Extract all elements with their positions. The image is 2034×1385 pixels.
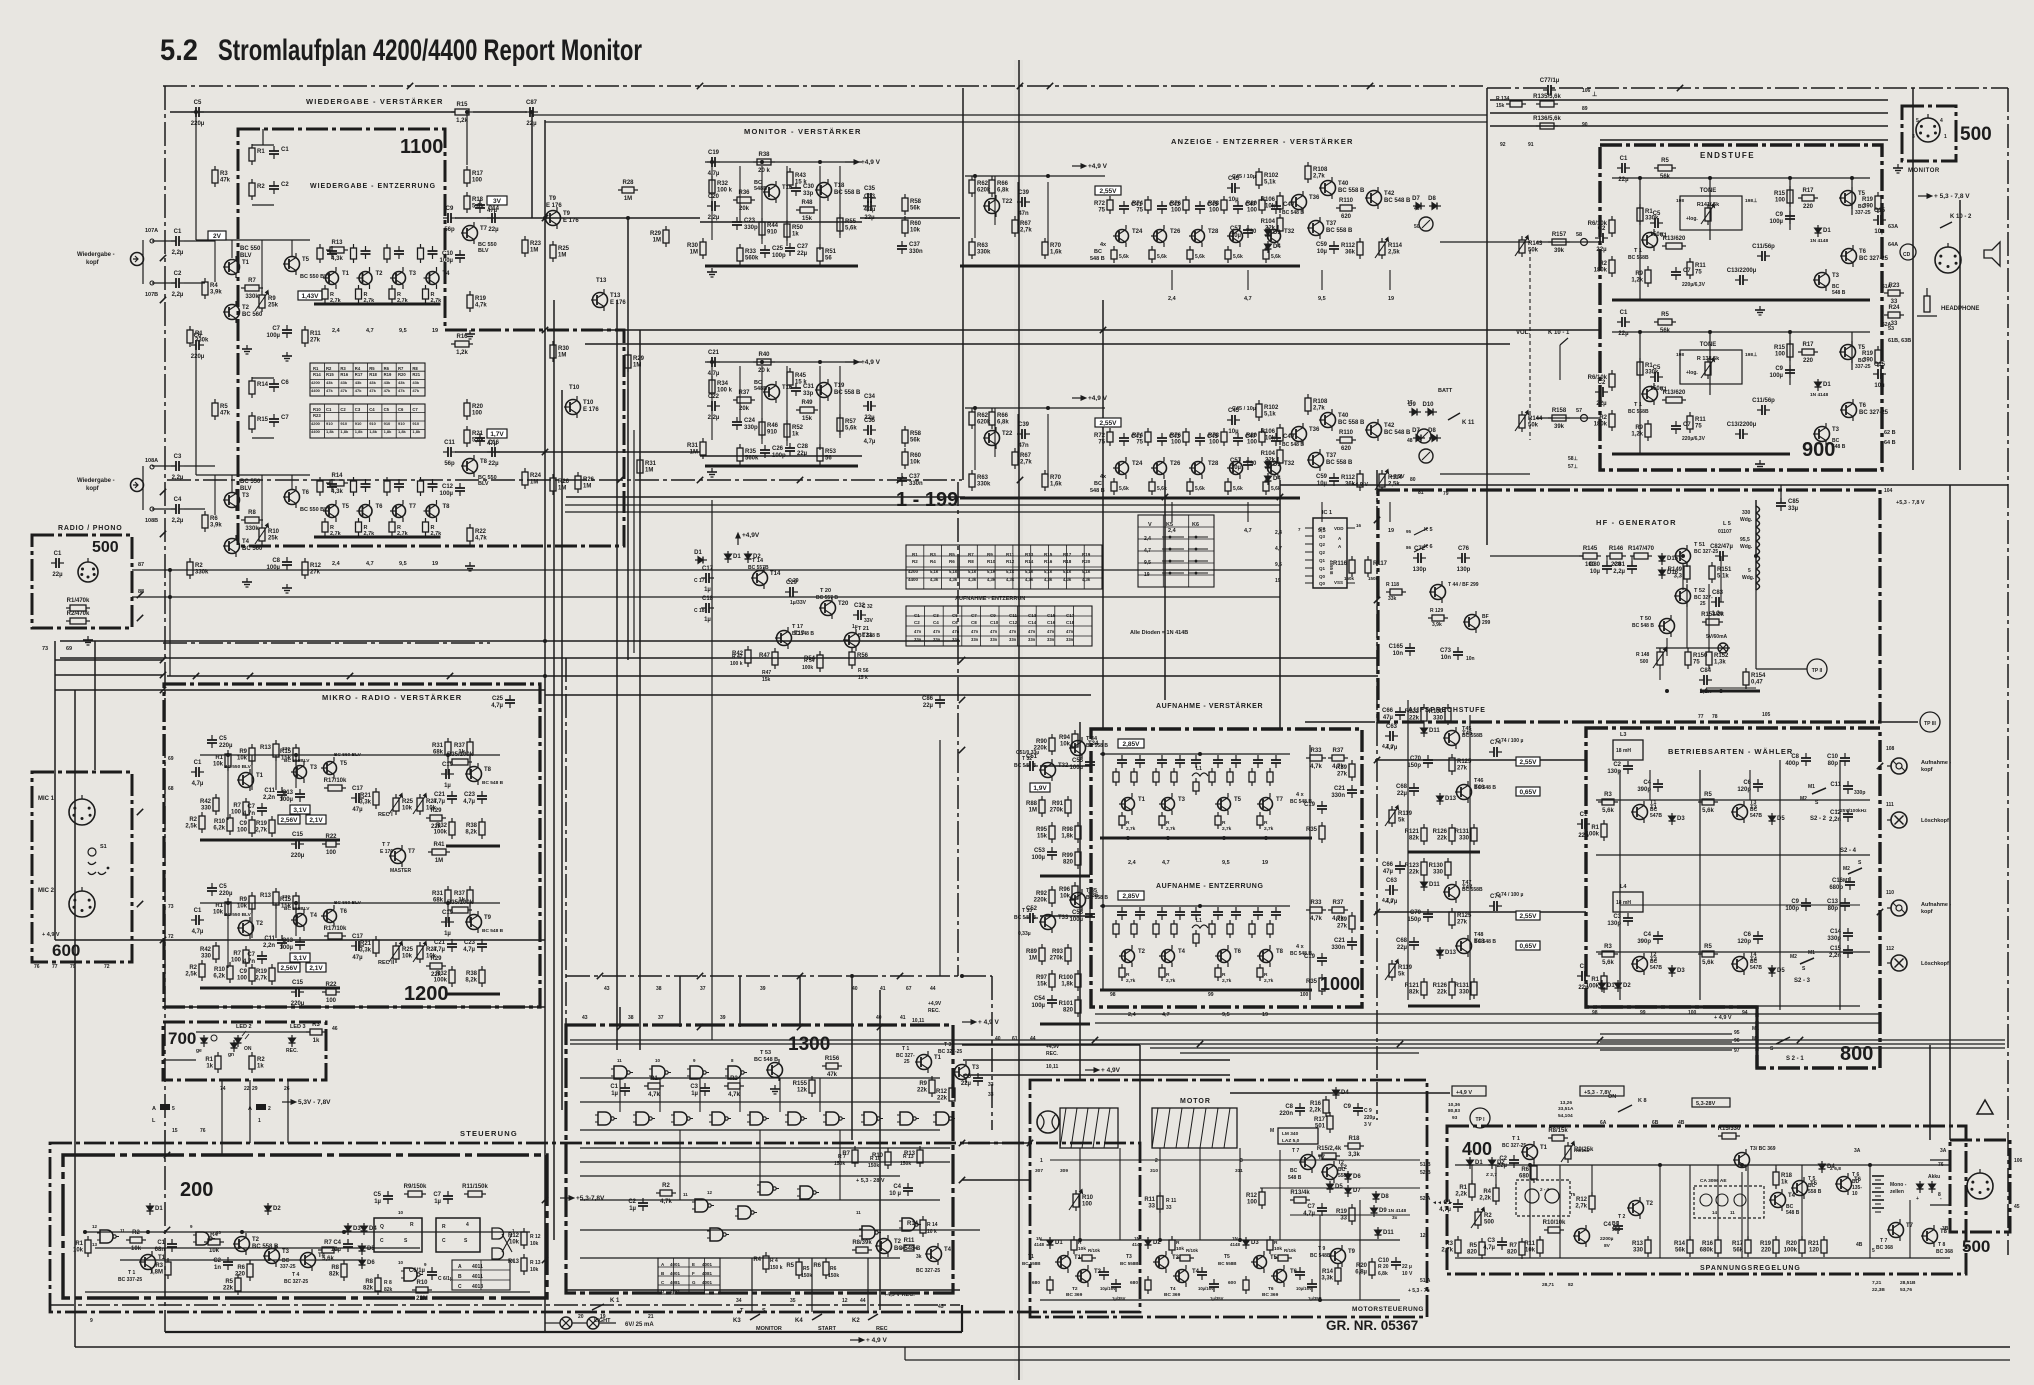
capacitor C2 (1607, 761, 1633, 775)
capacitor C13 (1231, 755, 1241, 768)
pin tick (959, 697, 965, 703)
svg-text:19: 19 (1144, 572, 1150, 578)
svg-text:10k: 10k (131, 1246, 142, 1252)
svg-text:2,7k: 2,7k (1166, 826, 1176, 832)
vertical x852 (851, 976, 853, 1140)
svg-text:15: 15 (172, 1128, 178, 1134)
capacitor C84 (1699, 668, 1712, 695)
transistor T4 (291, 909, 318, 931)
svg-text:1: 1 (258, 1118, 261, 1124)
svg-text:R15: R15 (326, 372, 334, 377)
svg-text:309: 309 (1060, 1168, 1068, 1174)
svg-text:27k: 27k (310, 570, 321, 576)
capacitor C47 (1233, 201, 1257, 214)
pin tick (1367, 83, 1373, 89)
svg-text:560k: 560k (745, 456, 759, 462)
outer frame right (2007, 88, 2009, 1255)
svg-text:R: R (1166, 820, 1170, 826)
svg-text:R1: R1 (1591, 825, 1599, 831)
svg-text:R11: R11 (310, 331, 321, 337)
svg-text:33: 33 (988, 1082, 994, 1088)
capacitor C3 (1135, 755, 1145, 768)
keys K3 K4 K2 (733, 1308, 888, 1332)
resistor R14 (907, 1216, 926, 1237)
resistor R67 (1012, 216, 1032, 237)
wire (262, 129, 264, 145)
svg-text:9,5: 9,5 (1222, 1012, 1230, 1018)
svg-text:330k: 330k (245, 294, 259, 300)
resistor R16 (451, 334, 473, 356)
wire vol upper (1536, 241, 1600, 243)
svg-text:4,3k: 4,3k (1025, 577, 1034, 582)
capacitor C70 (1407, 909, 1433, 923)
tp3 line (1880, 721, 1918, 723)
svg-text:Q3: Q3 (1319, 534, 1326, 539)
svg-text:D13: D13 (1445, 950, 1457, 956)
capacitor C8 (1785, 753, 1811, 767)
svg-text:+4,9V: +4,9V (1046, 1044, 1060, 1050)
svg-text:BC 548 B: BC 548 B (482, 780, 504, 786)
svg-text:Q1: Q1 (1319, 558, 1326, 563)
svg-text:3 V: 3 V (1364, 1122, 1372, 1128)
LED1 (196, 1035, 217, 1054)
capacitor C4 (331, 1239, 353, 1253)
svg-text:4,7µ: 4,7µ (864, 439, 876, 445)
resistor R14 (326, 473, 348, 495)
svg-text:R6: R6 (813, 1263, 821, 1269)
svg-text:57⊥: 57⊥ (1568, 464, 1579, 470)
svg-text:19: 19 (1388, 528, 1394, 534)
resistor R5 (1467, 1238, 1485, 1259)
svg-text:1,7V: 1,7V (490, 431, 504, 438)
svg-text:390: 390 (1863, 358, 1874, 364)
svg-text:C57: C57 (1230, 458, 1242, 464)
svg-text:22µ: 22µ (526, 121, 537, 127)
resistor R21 (359, 788, 379, 809)
svg-text:R5: R5 (803, 1266, 810, 1272)
svg-text:BC 560 BLV: BC 560 BLV (334, 900, 362, 906)
potentiometer R2 (1471, 1208, 1495, 1230)
svg-text:10: 10 (398, 1210, 404, 1215)
svg-text:1µ: 1µ (444, 931, 451, 937)
svg-text:47k: 47k (384, 388, 391, 393)
resistor R3 (150, 1258, 171, 1279)
svg-text:R1: R1 (75, 1241, 83, 1247)
resistor R66 (989, 408, 1009, 429)
capacitor stage2 (1209, 1279, 1219, 1292)
svg-text:LAZ 5,0: LAZ 5,0 (1282, 1138, 1300, 1144)
svg-text:33: 33 (1166, 1205, 1172, 1211)
svg-text:C5: C5 (219, 884, 227, 890)
diode D4 (1265, 473, 1282, 485)
svg-text:51 B: 51 B (1420, 1162, 1431, 1168)
svg-text:2,4: 2,4 (1168, 296, 1177, 302)
capacitor C8 (1279, 1103, 1305, 1117)
capacitor C25 (760, 245, 786, 259)
svg-text:R7: R7 (324, 1240, 332, 1246)
svg-text:BC 558 B: BC 558 B (834, 190, 861, 196)
resistor R35 (1306, 822, 1325, 843)
svg-text:3,3: 3,3 (1674, 574, 1683, 580)
capacitor C3 (1607, 913, 1633, 927)
svg-text:150 k: 150 k (770, 1265, 783, 1271)
resistor stage (1267, 1236, 1273, 1254)
svg-text:T3: T3 (310, 765, 318, 771)
resistor R108 (1305, 394, 1328, 415)
table V K5 K6 (1138, 515, 1214, 587)
monitor ground rail (705, 265, 858, 268)
gate 1300 (735, 1206, 757, 1219)
potentiometer R148 (1653, 648, 1667, 670)
capacitor C17 (351, 786, 364, 813)
svg-text:35: 35 (790, 1298, 796, 1304)
transistor T6 (1271, 1265, 1298, 1287)
svg-text:10k: 10k (1060, 894, 1071, 900)
svg-text:910: 910 (369, 421, 376, 426)
svg-text:C3: C3 (174, 454, 182, 460)
resistor R112 (1341, 470, 1363, 491)
svg-text:4,7µ: 4,7µ (192, 781, 204, 787)
DIN connector monitor (1916, 114, 1940, 142)
svg-text:C7: C7 (247, 952, 255, 958)
resistor R123 (1405, 858, 1427, 879)
bus line y1007 bottom 1200 (164, 1006, 545, 1008)
supply rail +4,9 V (1072, 395, 1108, 402)
svg-text:100k: 100k (802, 665, 813, 671)
capacitor C74 (1489, 894, 1502, 911)
svg-text:43: 43 (582, 1015, 588, 1021)
svg-text:C15: C15 (1047, 613, 1056, 618)
svg-text:R1: R1 (257, 149, 265, 155)
capacitor C4 (1637, 931, 1663, 945)
svg-text:1N 4148: 1N 4148 (1388, 1208, 1406, 1214)
svg-text:R9: R9 (239, 897, 247, 903)
transistor T4 (1159, 945, 1186, 967)
svg-text:547B: 547B (1650, 813, 1662, 819)
vertical x554 long (553, 300, 555, 1240)
resistor R56 (849, 648, 869, 669)
block 900 endstufe border (1600, 145, 1882, 470)
ground (1893, 164, 1903, 173)
bus line y112 (170, 111, 455, 113)
svg-text:R16: R16 (1310, 1101, 1322, 1107)
svg-text:6V/ 25 mA: 6V/ 25 mA (625, 1322, 654, 1328)
voltage label 2,56V (278, 815, 300, 824)
svg-text:Stromlaufplan 4200/4400 Report: Stromlaufplan 4200/4400 Report Monitor (218, 34, 642, 67)
svg-text:M2: M2 (1800, 796, 1807, 802)
svg-text:1N: 1N (1036, 1236, 1042, 1241)
svg-text:R15: R15 (1044, 552, 1053, 557)
resistor R36 (733, 190, 755, 212)
svg-text:1000: 1000 (1320, 974, 1360, 994)
svg-text:R18: R18 (1348, 1136, 1360, 1142)
resistor R2 (185, 812, 205, 833)
svg-text:AUFNAHME - ENTZERRUNG: AUFNAHME - ENTZERRUNG (1156, 883, 1263, 890)
svg-text:5,1k: 5,1k (1063, 569, 1072, 574)
svg-text:0,65V: 0,65V (1520, 943, 1538, 950)
svg-text:R55: R55 (845, 219, 857, 225)
svg-text:R125: R125 (1457, 759, 1472, 765)
anzeige drops2 (974, 408, 976, 470)
svg-text:10k: 10k (213, 762, 224, 768)
resistor R37 (454, 738, 473, 759)
pin tick (542, 215, 548, 221)
gate A1 (97, 1230, 119, 1243)
svg-text:T 20: T 20 (820, 588, 831, 594)
svg-text:R3: R3 (730, 1076, 738, 1082)
resistor R9 (1631, 266, 1651, 287)
svg-text:T7: T7 (1318, 1155, 1326, 1161)
svg-text:T4: T4 (443, 271, 451, 277)
resistor emitter T8 (423, 518, 429, 536)
svg-text:M1: M1 (1808, 950, 1815, 956)
svg-text:2,2µ: 2,2µ (172, 292, 184, 298)
svg-text:82k: 82k (1409, 990, 1420, 996)
transistor T20 (819, 597, 849, 619)
svg-text:9,5: 9,5 (1275, 562, 1282, 568)
svg-text:47n: 47n (1018, 443, 1029, 449)
svg-text:D7: D7 (1353, 1188, 1361, 1194)
diode D2 (265, 1203, 282, 1215)
svg-text:33k: 33k (1388, 596, 1397, 602)
svg-text:41: 41 (900, 1015, 906, 1021)
resistor R146 (1606, 546, 1626, 568)
line y722 left (1305, 721, 1375, 723)
pin tick (897, 973, 903, 979)
svg-text:310: 310 (1150, 1168, 1158, 1174)
resistor R38 (465, 966, 485, 987)
svg-text:BC 550BLV: BC 550BLV (284, 758, 310, 764)
block 500 monitor connector border (1902, 106, 1956, 161)
resistor R97 (1036, 970, 1055, 991)
svg-text:108: 108 (1886, 746, 1895, 752)
svg-text:D7: D7 (1412, 196, 1420, 202)
svg-text:C45 / 10µ: C45 / 10µ (1232, 406, 1256, 412)
svg-text:1: 1 (1944, 134, 1947, 140)
svg-text:R5: R5 (1704, 792, 1712, 798)
diode D6 (359, 1257, 376, 1269)
svg-text:680p: 680p (1829, 885, 1843, 891)
svg-text:C53: C53 (1034, 848, 1046, 854)
svg-text:R17: R17 (1802, 342, 1814, 348)
svg-text:T6: T6 (1234, 949, 1242, 955)
diode D8 (1428, 196, 1441, 210)
svg-text:90: 90 (1582, 122, 1588, 128)
svg-text:C 6/1µ: C 6/1µ (438, 1276, 453, 1282)
svg-text:87: 87 (138, 562, 144, 568)
svg-text:T37: T37 (1326, 453, 1337, 459)
svg-text:R9: R9 (987, 552, 993, 557)
svg-text:C2: C2 (914, 620, 920, 625)
resistor R49 (796, 400, 818, 422)
capacitor C37 (897, 241, 923, 255)
svg-text:R15/2,4k: R15/2,4k (1317, 1146, 1342, 1152)
svg-text:6,2k: 6,2k (213, 826, 225, 832)
table (452, 1260, 510, 1290)
potentiometer R9 (255, 291, 279, 313)
svg-text:12k: 12k (797, 1088, 808, 1094)
svg-text:2,2µ: 2,2µ (708, 415, 720, 421)
gate 1300 (897, 1112, 919, 1125)
svg-text:47µ: 47µ (352, 955, 363, 961)
capacitor ladder cell 3 (394, 479, 404, 492)
svg-text:R: R (1264, 972, 1268, 978)
resistor R150 (1685, 648, 1708, 669)
svg-text:25: 25 (1700, 601, 1706, 607)
svg-text:C11: C11 (264, 936, 275, 942)
resistor R32 (434, 818, 455, 839)
svg-text:C80: C80 (1589, 562, 1601, 568)
diode D1 (725, 551, 742, 563)
svg-text:R92: R92 (1036, 891, 1048, 897)
svg-text:99: 99 (1208, 992, 1214, 998)
capacitor C11 (263, 935, 287, 949)
1000 feed verticals (1102, 740, 1104, 990)
capacitor C9 (1191, 755, 1201, 768)
svg-text:R126: R126 (1433, 829, 1448, 835)
svg-text:33: 33 (1891, 321, 1898, 327)
hf inner verticals (1606, 556, 1608, 566)
transistor T3 (953, 1061, 980, 1083)
voltage label (1118, 739, 1144, 748)
svg-text:T6: T6 (376, 504, 384, 510)
svg-text:9,5: 9,5 (1318, 296, 1326, 302)
resistor R2 (249, 179, 265, 200)
svg-text:100: 100 (237, 828, 248, 834)
mikro drops2 (227, 903, 229, 968)
svg-text:C12: C12 (442, 484, 454, 490)
svg-text:R 10: R 10 (870, 1156, 881, 1162)
potentiometer R25 (389, 942, 414, 964)
ground (282, 584, 292, 593)
pin tick (797, 477, 803, 483)
svg-text:C5: C5 (373, 1192, 381, 1198)
svg-text:T9: T9 (484, 915, 492, 921)
svg-text:2,4: 2,4 (1144, 536, 1151, 542)
svg-text:R35: R35 (1306, 827, 1318, 833)
pin tick (697, 477, 703, 483)
svg-text:64A: 64A (1888, 242, 1898, 248)
svg-text:1300: 1300 (788, 1034, 830, 1055)
resistor R156 (822, 1056, 842, 1078)
capacitor C1 (155, 1239, 177, 1253)
svg-text:G: G (692, 1280, 696, 1285)
bus line (957, 482, 959, 645)
svg-text:47µ: 47µ (1383, 715, 1394, 721)
vertical x963 top (962, 88, 964, 480)
resistor R6/10k (1588, 216, 1615, 237)
resistor R72 (1094, 428, 1113, 446)
svg-text:R40: R40 (758, 352, 770, 358)
svg-text:2,7k: 2,7k (1222, 978, 1232, 984)
svg-text:BC 558B: BC 558B (1022, 1261, 1041, 1266)
resistor R23 (1884, 283, 1904, 305)
pin tick (1374, 909, 1380, 915)
svg-text:330: 330 (1433, 716, 1444, 722)
svg-text:C10: C10 (1378, 1258, 1390, 1264)
svg-text:C10: C10 (1827, 754, 1839, 760)
svg-text:BC 548 B: BC 548 B (1474, 939, 1496, 945)
svg-text:R10: R10 (1082, 1195, 1094, 1201)
svg-text:34: 34 (736, 1298, 742, 1304)
supply rail +4,9 V (1072, 163, 1108, 170)
svg-text:R8: R8 (331, 1265, 339, 1271)
pin tick (542, 1197, 548, 1203)
svg-text:330n: 330n (909, 249, 923, 255)
svg-text:4: 4 (466, 1222, 469, 1228)
hf vertical x1781 (1780, 485, 1782, 503)
svg-text:56k: 56k (910, 206, 921, 212)
capacitor C45 (1195, 433, 1219, 446)
svg-text:T2: T2 (1650, 952, 1656, 958)
svg-text:100µ: 100µ (267, 333, 281, 339)
resistor R20 (1784, 1236, 1805, 1257)
capacitor C7 (1303, 1203, 1327, 1217)
svg-text:4,7: 4,7 (1244, 528, 1252, 534)
diode D2 (1615, 980, 1632, 992)
diode D1 (1599, 980, 1616, 992)
resistor emitter T2 (356, 285, 362, 303)
svg-text:5,1k: 5,1k (968, 569, 977, 574)
resistor R96 (1059, 882, 1078, 903)
tape head Loeschkopf upper (1887, 812, 1907, 828)
value table R upper (310, 363, 425, 396)
diode D1 (147, 1203, 164, 1215)
resistor R80 (1246, 196, 1265, 214)
svg-text:33n: 33n (1047, 637, 1055, 642)
svg-text:C1: C1 (157, 1240, 165, 1246)
capacitor C7 (433, 1191, 453, 1205)
resistor ladder cell 2 top (351, 244, 357, 263)
svg-text:548 B: 548 B (1090, 256, 1105, 262)
capacitor C6 (269, 379, 289, 392)
svg-text:10k: 10k (910, 228, 921, 234)
diode D1 (694, 550, 707, 564)
svg-text:C 18: C 18 (694, 608, 705, 614)
svg-text:C 74 / 100 µ: C 74 / 100 µ (1496, 738, 1523, 744)
resistor emitter (1257, 964, 1263, 981)
capacitor ladder cell 1 (327, 479, 337, 492)
motor rails (1040, 1239, 1400, 1241)
svg-text:⊥: ⊥ (1592, 91, 1597, 98)
svg-text:820: 820 (1063, 1008, 1074, 1014)
svg-text:4,7: 4,7 (1144, 548, 1151, 554)
radio bus y597 (132, 596, 1280, 598)
svg-text:330k: 330k (977, 482, 991, 488)
svg-text:R135/5,6k: R135/5,6k (1533, 94, 1561, 100)
svg-text:BC 548 B: BC 548 B (1474, 785, 1496, 791)
diode D15 (1659, 553, 1679, 565)
resistor R19 (467, 291, 487, 312)
resistor R2 (126, 1230, 146, 1252)
diode D10 (1422, 402, 1437, 416)
capacitor C39 (1017, 190, 1030, 217)
svg-text:T3: T3 (1750, 800, 1756, 806)
resistor R33 (737, 244, 759, 265)
resistor R35 (1306, 974, 1325, 995)
svg-text:4,7: 4,7 (1162, 860, 1170, 866)
svg-text:1M: 1M (435, 858, 443, 864)
svg-text:1k: 1k (458, 750, 465, 756)
capacitor C1 (1577, 964, 1590, 991)
resistor R8 (363, 1274, 381, 1295)
svg-text:100: 100 (1247, 1200, 1258, 1206)
svg-text:C21: C21 (434, 792, 446, 798)
resistor R20 (1355, 1258, 1375, 1279)
svg-text:BC 548 B: BC 548 B (792, 631, 814, 637)
svg-text:22µ: 22µ (1618, 177, 1629, 183)
svg-text:C63: C63 (1386, 724, 1398, 730)
